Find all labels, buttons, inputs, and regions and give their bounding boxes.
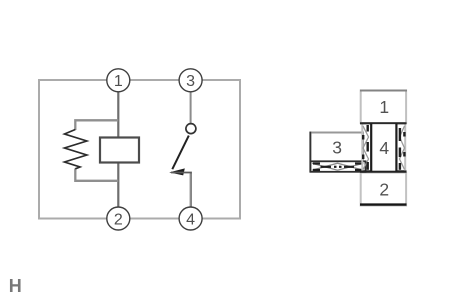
svg-text:2: 2 — [114, 211, 123, 228]
svg-text:H: H — [9, 276, 22, 296]
wire switch lower contact L-bend to terminal 4 — [171, 173, 191, 208]
wire coil branch vertical (terminal 1 to terminal 2) — [117, 91, 119, 208]
wire outer loop of relay schematic — [39, 80, 240, 219]
terminal 3 — [179, 69, 202, 92]
svg-text:1: 1 — [114, 73, 123, 90]
switch fixed contact (small circle) — [186, 124, 196, 134]
left hatched slot beside pin 4 — [362, 125, 368, 171]
connector cavity 3 — [310, 132, 363, 173]
svg-text:1: 1 — [379, 97, 389, 117]
connector middle section frame — [360, 123, 407, 171]
terminal 2 — [107, 207, 130, 230]
relay coil — [100, 138, 139, 163]
spring (zigzag) — [65, 130, 87, 169]
svg-text:4: 4 — [379, 138, 389, 158]
connector cavity 1 — [360, 91, 407, 124]
cavity 3 lower hatched slot — [311, 161, 366, 172]
switch arm arrowhead — [169, 168, 185, 175]
wire switch vertical from terminal 3 — [190, 91, 192, 124]
svg-text:3: 3 — [332, 137, 342, 157]
wire parallel spring branch — [75, 120, 118, 181]
svg-text:4: 4 — [186, 211, 195, 228]
svg-text:3: 3 — [186, 73, 195, 90]
terminal 1 — [107, 69, 130, 92]
connector cavity 2 — [360, 173, 407, 206]
svg-text:2: 2 — [379, 180, 389, 200]
switch movable arm — [172, 136, 189, 170]
right hatched slot beside pin 4 — [400, 125, 406, 171]
connector pin 4 cavity — [371, 123, 396, 171]
terminal 4 — [179, 207, 202, 230]
